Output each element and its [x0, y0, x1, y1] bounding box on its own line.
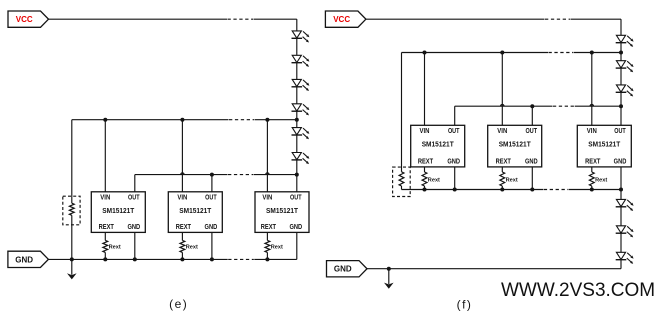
- resistor Rext1 (f): [422, 172, 427, 186]
- LED D5 (f): [616, 226, 634, 238]
- resistor Rext3 (e): [265, 240, 270, 252]
- junction: REXT bus / U1 GND (f): [453, 188, 457, 192]
- junction: REXT bus / U2 GND (f): [530, 188, 534, 192]
- svg-text:GND: GND: [614, 159, 627, 166]
- LED D2 (e): [292, 55, 310, 67]
- wire: VIN bus rail A (e), dashed break: [72, 119, 297, 121]
- driver IC U3 SM15121T (f): [577, 125, 631, 167]
- junction: rail A / U1 VIN (e): [103, 118, 107, 122]
- junction: REXT bus / Rext3 (f): [590, 188, 594, 192]
- svg-text:GND: GND: [525, 159, 538, 166]
- svg-text:VIN: VIN: [262, 194, 272, 201]
- power flag VCC (circuit e): [8, 11, 49, 27]
- LED D1 (f): [616, 35, 634, 47]
- svg-text:REXT: REXT: [261, 224, 277, 231]
- svg-text:REXT: REXT: [585, 159, 601, 166]
- wire: U1 VIN riser to rail A (e): [104, 120, 106, 192]
- wire: OUT bus rail B (e), dashed break: [135, 174, 297, 176]
- wire hop: U2 VIN crossing rail B (e): [181, 173, 184, 175]
- svg-text:SM15121T: SM15121T: [422, 139, 454, 148]
- svg-text:GND: GND: [15, 255, 33, 264]
- wire hop: U3 VIN crossing rail B (e): [266, 173, 269, 175]
- dashed option box around R0 (e): [63, 196, 80, 225]
- wire: U3 GND pin drop (e): [296, 232, 298, 259]
- value label Rext (U3, f): [595, 178, 607, 184]
- resistor (optional, in dashed box) R0 (e): [69, 203, 74, 215]
- svg-text:SM15121T: SM15121T: [102, 206, 134, 215]
- wire: left branch from rail C down to REXT bus (f): [401, 53, 403, 190]
- wire: U2 OUT riser to rail D (f): [531, 106, 533, 125]
- resistor (optional, in dashed box) R0 (f): [399, 172, 404, 186]
- junction: rail A / U2 VIN (e): [180, 118, 184, 122]
- wire: VCC supply rail (f), dashed break: [366, 18, 621, 20]
- wire: OUT bus rail D (f), dashed break: [455, 105, 621, 107]
- svg-text:SM15121T: SM15121T: [266, 206, 298, 215]
- svg-text:GND: GND: [447, 159, 460, 166]
- LED D4 (f): [616, 199, 634, 211]
- wire: LED string column (e): [296, 19, 298, 192]
- junction: rail C / U2 VIN (f): [500, 51, 504, 55]
- ground flag GND (circuit e): [8, 251, 49, 267]
- resistor Rext2 (f): [500, 172, 505, 186]
- wire: VIN bus rail C (f), dashed break: [402, 52, 622, 54]
- junction: ground rail / Rext3 (e): [265, 257, 269, 261]
- LED D1 (e): [292, 31, 310, 43]
- wire: U1 VIN riser to rail C (f): [424, 53, 426, 126]
- value label Rext (U2, f): [506, 178, 518, 184]
- wire: U1 REXT pin to resistor (e): [104, 232, 106, 259]
- svg-text:REXT: REXT: [496, 159, 512, 166]
- svg-text:Rext: Rext: [109, 245, 121, 251]
- LED D4 (e): [292, 104, 310, 116]
- svg-text:OUT: OUT: [526, 128, 538, 135]
- resistor Rext1 (e): [103, 240, 108, 252]
- svg-text:Rext: Rext: [595, 178, 607, 184]
- junction: REXT bus / Rext2 (f): [500, 188, 504, 192]
- node: rail C tap on LED string (f): [619, 51, 623, 55]
- svg-text:VIN: VIN: [420, 128, 430, 135]
- svg-text:OUT: OUT: [128, 194, 140, 201]
- wire hop: U2 VIN crossing rail D (f): [501, 104, 504, 106]
- node: rail B tap on LED string (e): [295, 173, 299, 177]
- svg-text:OUT: OUT: [448, 128, 460, 135]
- earth ground symbol (f): [384, 269, 394, 289]
- wire: U1 OUT riser to rail D (f): [454, 106, 456, 125]
- svg-text:Rext: Rext: [428, 178, 440, 184]
- svg-text:VIN: VIN: [587, 128, 597, 135]
- junction: ground rail / U1 GND (e): [133, 257, 137, 261]
- junction: rail D / U2 OUT (f): [530, 104, 534, 108]
- svg-text:REXT: REXT: [99, 224, 115, 231]
- value label Rext (U1, f): [428, 178, 440, 184]
- junction: rail C / U1 VIN (f): [423, 51, 427, 55]
- svg-text:REXT: REXT: [176, 224, 192, 231]
- svg-text:VCC: VCC: [16, 15, 33, 24]
- svg-text:GND: GND: [289, 224, 302, 231]
- LED D3 (f): [616, 85, 634, 97]
- wire: U2 OUT riser to rail B (e): [211, 175, 213, 192]
- svg-text:Rext: Rext: [271, 245, 283, 251]
- driver IC U1 SM15121T (e): [91, 192, 145, 233]
- junction: ground rail / Rext1 (e): [103, 257, 107, 261]
- svg-text:WWW.2VS3.COM: WWW.2VS3.COM: [501, 280, 655, 301]
- wire: U3 GND pin drop to bus (f): [620, 167, 622, 190]
- wire: left branch from rail A down to ground (e): [71, 120, 73, 260]
- wire: U2 GND pin drop (e): [211, 232, 213, 259]
- junction: ground rail / Rext2 (e): [180, 257, 184, 261]
- LED D2 (f): [616, 61, 634, 73]
- power flag VCC (circuit f): [325, 11, 366, 27]
- svg-text:VCC: VCC: [333, 15, 350, 24]
- driver IC U1 SM15121T (f): [411, 125, 465, 167]
- svg-text:VIN: VIN: [177, 194, 187, 201]
- wire: U1 OUT riser to rail B (e): [134, 175, 136, 192]
- LED D5 (e): [292, 128, 310, 140]
- resistor Rext2 (e): [180, 240, 185, 252]
- ground flag GND (circuit f): [327, 261, 368, 277]
- svg-text:REXT: REXT: [418, 159, 434, 166]
- driver IC U2 SM15121T (f): [488, 125, 542, 167]
- value label Rext (U3, e): [271, 245, 283, 251]
- driver IC U2 SM15121T (e): [168, 192, 222, 233]
- junction: ground rail / left branch (e): [70, 257, 74, 261]
- label (e): [169, 297, 188, 311]
- wire: U2 REXT pin to resistor (e): [181, 232, 183, 259]
- svg-text:VIN: VIN: [497, 128, 507, 135]
- svg-text:GND: GND: [334, 265, 352, 274]
- svg-text:(e): (e): [169, 297, 188, 311]
- svg-text:OUT: OUT: [290, 194, 302, 201]
- LED D6 (f): [616, 252, 634, 264]
- wire: ground rail (f): [367, 268, 621, 270]
- svg-text:SM15121T: SM15121T: [499, 139, 531, 148]
- wire: U1 REXT pin to resistor (f): [424, 167, 426, 190]
- wire hop: U3 VIN crossing rail D (f): [590, 104, 593, 106]
- svg-text:(f): (f): [457, 297, 473, 311]
- wire: U2 GND pin drop to bus (f): [531, 167, 533, 190]
- earth ground symbol (e): [67, 259, 77, 279]
- junction: REXT bus / U3 GND (f): [619, 188, 623, 192]
- wire: upper LED string column (f): [620, 19, 622, 125]
- svg-text:SM15121T: SM15121T: [179, 206, 211, 215]
- junction: ground rail / earth (f): [387, 267, 391, 271]
- value label Rext (U1, e): [109, 245, 121, 251]
- junction: ground rail / U2 GND (e): [210, 257, 214, 261]
- svg-text:VIN: VIN: [100, 194, 110, 201]
- label (f): [457, 297, 473, 311]
- node: rail A tap on LED string (e): [295, 118, 299, 122]
- svg-text:OUT: OUT: [205, 194, 217, 201]
- wire: lower LED string column (f): [620, 190, 622, 269]
- wire: ground rail (e), dashed break: [48, 258, 296, 260]
- wire: REXT/GND bus (f), dashed break: [402, 189, 622, 191]
- wire: U2 REXT pin to resistor (f): [501, 167, 503, 190]
- svg-text:GND: GND: [205, 224, 218, 231]
- dashed option box around R0 (f): [393, 167, 411, 196]
- wire: VCC supply rail (e), dashed break: [49, 18, 297, 20]
- LED D6 (e): [292, 153, 310, 165]
- wire: U3 VIN riser to rail C (f): [591, 53, 593, 126]
- wire: U3 REXT pin to resistor (f): [591, 167, 593, 190]
- wire: U3 REXT pin to resistor (e): [266, 232, 268, 259]
- node: rail D tap on LED string (f): [619, 104, 623, 108]
- svg-text:Rext: Rext: [506, 178, 518, 184]
- junction: rail A / U3 VIN (e): [265, 118, 269, 122]
- svg-text:GND: GND: [127, 224, 140, 231]
- svg-text:OUT: OUT: [614, 128, 626, 135]
- junction: rail B / U2 OUT (e): [210, 173, 214, 177]
- junction: REXT bus / Rext1 (f): [423, 188, 427, 192]
- junction: rail C / U3 VIN (f): [590, 51, 594, 55]
- wire: U2 VIN riser to rail A (e): [181, 120, 183, 192]
- wire: U1 GND pin drop (e): [134, 232, 136, 259]
- LED D3 (e): [292, 79, 310, 91]
- watermark text WWW.2VS3.COM: [501, 280, 655, 301]
- wire: U2 VIN riser to rail C (f): [501, 53, 503, 126]
- resistor Rext3 (f): [589, 172, 594, 186]
- value label Rext (U2, e): [186, 245, 198, 251]
- driver IC U3 SM15121T (e): [255, 192, 309, 233]
- svg-text:Rext: Rext: [186, 245, 198, 251]
- svg-text:SM15121T: SM15121T: [588, 139, 620, 148]
- wire: U1 GND pin drop to bus (f): [454, 167, 456, 190]
- wire: U3 VIN riser to rail A (e): [266, 120, 268, 192]
